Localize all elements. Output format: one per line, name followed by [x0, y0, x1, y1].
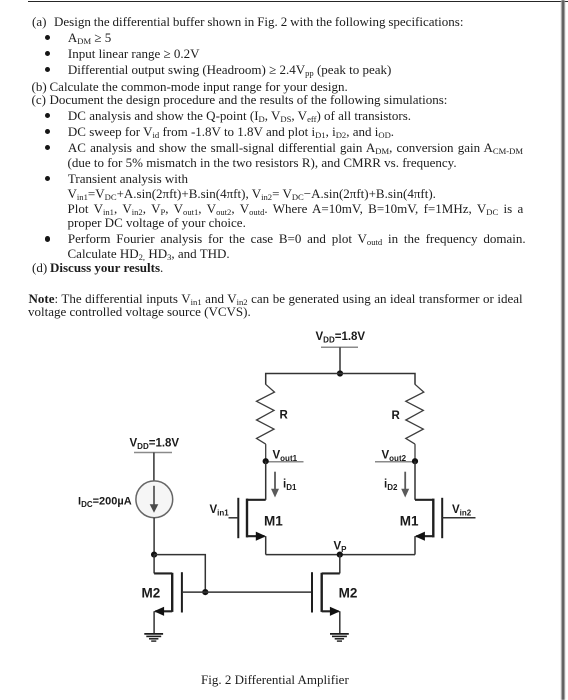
- wire top rail: [266, 374, 415, 385]
- node tail junction: [151, 552, 157, 558]
- current arrow iD1: [271, 472, 297, 498]
- label M1 (left): [264, 514, 283, 529]
- label IDC=200uA: [78, 496, 132, 510]
- svg-text:Vin1: Vin1: [210, 504, 230, 518]
- resistor R (right): [406, 384, 424, 461]
- label M2 (left): [142, 585, 161, 600]
- power rail VDD=1.8V (left branch): [130, 437, 180, 452]
- label Vin2: [452, 504, 472, 518]
- svg-text:Vout2: Vout2: [382, 449, 407, 463]
- caption Fig. 2 Differential Amplifier: [201, 672, 349, 688]
- label Vin1: [210, 504, 230, 518]
- node VP: [334, 541, 348, 558]
- label M2 (right): [339, 585, 358, 600]
- wire VP to M2 drain (right): [322, 555, 340, 574]
- current source IDC: [136, 481, 173, 518]
- wire Vout1 to M1 drain: [265, 461, 267, 500]
- label R (right resistor): [392, 410, 401, 422]
- wire current source to tail node: [153, 518, 155, 555]
- wire diode connection (drain to gate): [154, 555, 205, 593]
- power rail VDD=1.8V (top center): [316, 331, 366, 348]
- top rule: [28, 1, 568, 3]
- svg-text:M2: M2: [339, 585, 358, 600]
- paragraph (a): [32, 15, 463, 28]
- wire VDD stub to top rail: [339, 347, 341, 373]
- svg-text:iD2: iD2: [384, 479, 398, 493]
- svg-text:Vout1: Vout1: [273, 449, 298, 463]
- paragraph (d): [32, 261, 163, 274]
- transistor M1 (right): [415, 498, 476, 555]
- transistor M2 (right): [312, 572, 340, 633]
- svg-text:M2: M2: [142, 585, 161, 600]
- svg-text:Vin2: Vin2: [452, 504, 472, 518]
- paragraph (b): [32, 80, 348, 93]
- wire VP source rail: [266, 554, 415, 556]
- node Vout2: [375, 449, 418, 464]
- node M2 gate junction: [202, 589, 208, 595]
- ground (left M2 source): [144, 634, 163, 641]
- ground (right M2 source): [330, 634, 349, 641]
- label R (left resistor): [280, 409, 289, 421]
- transistor M1 (left): [229, 498, 267, 555]
- resistor R (left): [257, 384, 275, 461]
- svg-text:VDD=1.8V: VDD=1.8V: [130, 437, 180, 451]
- wire tail node down to M2 drain (left): [154, 555, 172, 574]
- svg-text:iD1: iD1: [283, 479, 297, 493]
- right page border: [561, 0, 566, 700]
- node Vout1: [263, 449, 304, 464]
- paragraph (c): [32, 93, 448, 106]
- wire VDD to current source: [153, 453, 155, 482]
- node junction on top rail: [337, 370, 343, 376]
- svg-text:IDC=200µA: IDC=200µA: [78, 496, 132, 510]
- svg-text:VDD=1.8V: VDD=1.8V: [316, 331, 366, 345]
- svg-text:R: R: [280, 409, 289, 421]
- svg-text:M1: M1: [264, 514, 283, 529]
- current arrow iD2: [384, 472, 409, 498]
- transistor M2 (left): [154, 572, 205, 633]
- wire shared gate net (M2 left to M2 right): [205, 591, 312, 593]
- svg-text:M1: M1: [400, 514, 419, 529]
- wire Vout2 to M1 drain (right): [414, 461, 416, 500]
- note paragraph: [29, 292, 523, 309]
- label M1 (right): [400, 514, 419, 529]
- svg-text:R: R: [392, 410, 401, 422]
